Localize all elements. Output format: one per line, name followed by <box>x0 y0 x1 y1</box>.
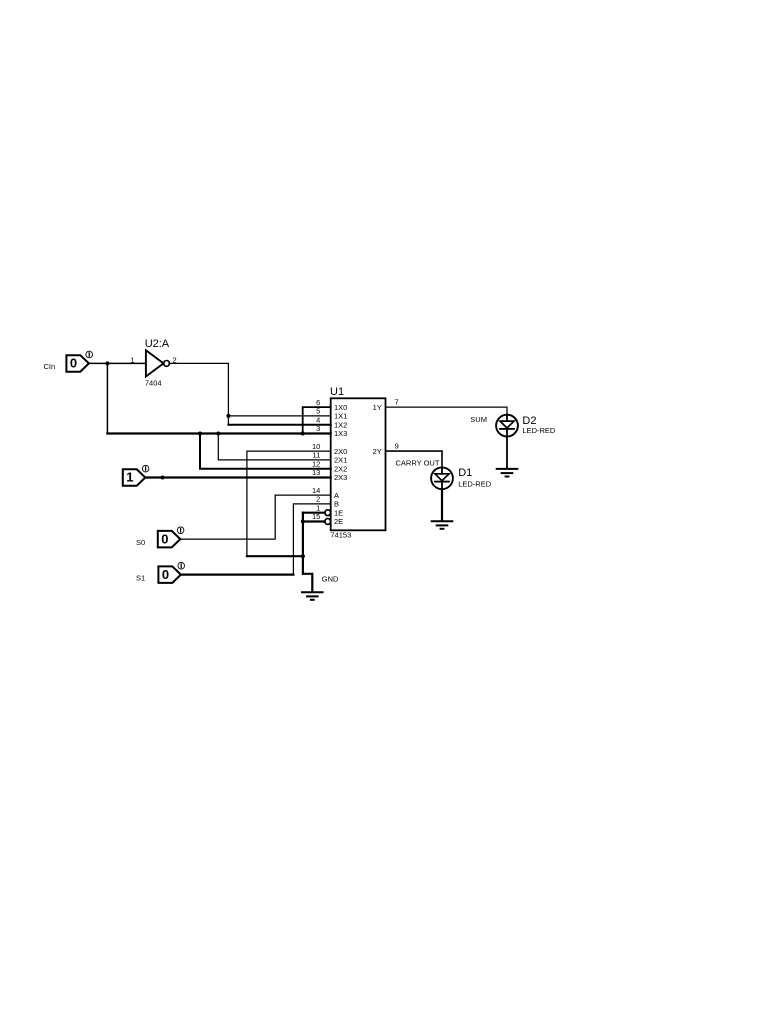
junction GND/2X0 <box>301 554 305 558</box>
junction on ONE wire <box>161 476 165 480</box>
svg-text:SUM: SUM <box>470 415 487 424</box>
svg-text:B: B <box>334 500 339 509</box>
svg-text:0: 0 <box>70 356 77 371</box>
wire net GND: 2E pin wire <box>303 520 325 522</box>
svg-text:2X3: 2X3 <box>334 473 347 482</box>
wire net CIn: vertical drop to 1X3 row <box>106 363 108 433</box>
svg-text:3: 3 <box>316 424 320 433</box>
logic input S1 (logicstate box "0") <box>158 562 184 583</box>
svg-text:1Y: 1Y <box>373 403 382 412</box>
svg-text:6: 6 <box>316 398 320 407</box>
svg-text:1X2: 1X2 <box>334 420 347 429</box>
wire net SUM: D2 cathode to ground <box>506 437 508 469</box>
svg-text:1X1: 1X1 <box>334 412 347 421</box>
wire net SUM: pin 7 1Y to LED D2 <box>386 407 508 415</box>
wire net CARRY: pin 9 2Y to LED D1 <box>386 451 443 467</box>
svg-text:10: 10 <box>312 442 320 451</box>
wire net CIn: 1X3 row to chip pin 3 <box>107 432 330 434</box>
svg-text:14: 14 <box>312 486 320 495</box>
wire net S0: to chip pin 14 A <box>180 495 330 539</box>
svg-text:2: 2 <box>316 495 320 504</box>
wire net NCIn: 1X1 row to chip pin 5 <box>228 415 330 417</box>
logic input constant 1 (logicstate box "1") <box>123 465 149 485</box>
junction on CIn wire <box>105 361 109 365</box>
ground symbol near chip <box>302 592 323 600</box>
LED D1 <box>431 467 453 489</box>
svg-text:S0: S0 <box>136 538 145 547</box>
svg-text:1: 1 <box>126 470 133 485</box>
svg-text:A: A <box>334 491 339 500</box>
ground symbol below D2 <box>497 469 518 477</box>
svg-text:13: 13 <box>312 468 320 477</box>
svg-text:2Y: 2Y <box>373 447 382 456</box>
svg-text:CARRY OUT: CARRY OUT <box>396 459 440 468</box>
ground symbol below D1 <box>432 521 453 529</box>
svg-text:12: 12 <box>312 459 320 468</box>
wire net CIn: branch to pin 12 2X2 <box>200 434 331 469</box>
svg-text:9: 9 <box>395 442 399 451</box>
svg-text:1X0: 1X0 <box>334 403 347 412</box>
inverting bubble pin 1 1E <box>325 510 331 516</box>
junction NCIn/1X1 <box>226 414 230 418</box>
wire net GND: 1E pin wire <box>303 512 325 514</box>
wire net CIn: box to inverter input <box>89 362 146 364</box>
junction 1X3/2X1 <box>216 432 220 436</box>
svg-text:2E: 2E <box>334 517 343 526</box>
svg-text:LED-RED: LED-RED <box>522 426 556 435</box>
junction GND/2E <box>301 520 305 524</box>
inverter U2:A (7404) <box>146 350 170 376</box>
svg-text:2X2: 2X2 <box>334 464 347 473</box>
svg-text:15: 15 <box>312 512 320 521</box>
svg-text:U1: U1 <box>330 386 344 398</box>
wire net ONE: to chip pin 13 2X3 <box>145 476 330 478</box>
wire net CIn: branch to pin 6 1X0 <box>303 407 331 433</box>
svg-text:S1: S1 <box>136 574 145 583</box>
svg-text:LED-RED: LED-RED <box>458 479 492 488</box>
svg-text:GND: GND <box>322 574 339 583</box>
wire net S1: horizontal from box <box>181 573 294 575</box>
logic input S0 (logicstate box "0") <box>158 527 184 548</box>
svg-text:0: 0 <box>161 531 168 546</box>
svg-text:1E: 1E <box>334 508 343 517</box>
svg-text:U2:A: U2:A <box>145 338 170 350</box>
inverting bubble pin 15 2E <box>325 519 331 525</box>
IC U1 74153 body <box>331 398 386 530</box>
wire net GND: vertical and jog to ground <box>303 513 312 592</box>
junction 1X3/1X0 <box>301 432 305 436</box>
svg-text:1: 1 <box>130 355 134 364</box>
svg-text:0: 0 <box>162 567 169 582</box>
svg-text:CIn: CIn <box>44 362 56 371</box>
svg-text:11: 11 <box>313 451 321 460</box>
svg-text:D1: D1 <box>458 467 472 479</box>
junction 1X3/2X2 <box>198 432 202 436</box>
svg-text:4: 4 <box>316 415 320 424</box>
logic input CIn (logicstate box "0") <box>66 351 92 372</box>
wire net S1: up to chip pin 2 B <box>293 504 330 575</box>
wire net N2X0: to GND vertical <box>247 555 303 557</box>
wire net NCIn: inverter output to corner and drop <box>169 363 228 424</box>
wire net CIn: branch to pin 11 2X1 <box>218 434 330 460</box>
svg-text:2X1: 2X1 <box>334 456 347 465</box>
svg-text:5: 5 <box>316 407 320 416</box>
wire net CARRY: D1 cathode to ground <box>441 489 443 520</box>
svg-text:1X3: 1X3 <box>334 429 347 438</box>
LED D2 <box>496 415 518 437</box>
wire net NCIn: 1X2 row to chip pin 4 <box>228 424 330 426</box>
svg-text:7404: 7404 <box>145 378 162 387</box>
svg-text:1: 1 <box>316 503 320 512</box>
wire net N2X0: chip pin 10 2X0 left and down <box>247 451 331 556</box>
svg-text:7: 7 <box>395 398 399 407</box>
svg-text:2X0: 2X0 <box>334 447 347 456</box>
svg-text:74153: 74153 <box>330 530 351 539</box>
